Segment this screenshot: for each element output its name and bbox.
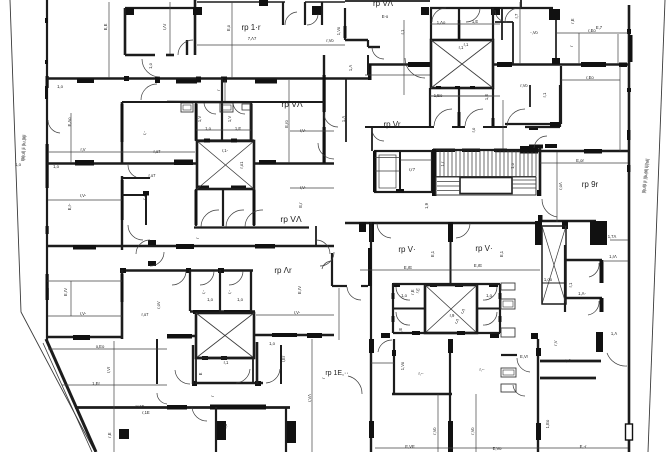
- door arc kitchen tr: [495, 10, 507, 22]
- svg-text:1,o: 1,o: [401, 293, 407, 298]
- door arc lobby big: [405, 58, 425, 78]
- bottom verticals t5: [449, 339, 451, 452]
- V1 black: [121, 104, 124, 142]
- door arc top b: [307, 14, 318, 25]
- apartment north wall: [122, 101, 324, 103]
- V E blacks: [323, 75, 326, 112]
- wall W4 baths top: [122, 269, 253, 272]
- door arc bath Dd: [483, 312, 497, 325]
- svg-text:1,Er: 1,Er: [92, 381, 100, 386]
- elevator divider: [399, 151, 401, 192]
- svg-text:1,Λ: 1,Λ: [348, 65, 353, 71]
- svg-text:r,V-: r,V-: [80, 193, 87, 198]
- top wall block: [259, 0, 268, 6]
- svg-text:1,E: 1,E: [398, 328, 403, 334]
- baths below core B bottom wall: [194, 226, 309, 228]
- svg-text:rp Λr: rp Λr: [274, 266, 292, 275]
- svg-text:rp VΛ: rp VΛ: [373, 0, 394, 8]
- door arc bcb 2: [226, 210, 244, 227]
- outer wall right blocks: [627, 29, 631, 34]
- svg-text:E,Λo: E,Λo: [67, 117, 72, 127]
- baths bca black slab: [550, 122, 560, 127]
- baths D left wall: [392, 284, 394, 333]
- W1 black slab c: [255, 80, 277, 84]
- door arc bath A3: [505, 8, 519, 22]
- fixture wc: [242, 104, 250, 110]
- top stub c: [304, 2, 306, 25]
- wall W11 a: [540, 360, 601, 363]
- svg-text:o,Eo: o,Eo: [96, 344, 105, 349]
- door arc bath Dc: [483, 287, 497, 300]
- dim line bca: [430, 95, 493, 97]
- W8 black a: [167, 405, 187, 410]
- shaft E diag 2: [542, 226, 566, 304]
- wall V1 mid: [121, 176, 123, 250]
- W2R black slab b: [584, 149, 602, 154]
- svg-text:1,o: 1,o: [57, 84, 63, 89]
- main wall W2 right: [495, 150, 630, 153]
- svg-text:E,Vr: E,Vr: [520, 354, 529, 359]
- W2R stub: [529, 145, 543, 149]
- door arc room70 b: [456, 223, 470, 238]
- baths D jambs: [392, 293, 395, 299]
- svg-text:rp VΛ: rp VΛ: [281, 99, 303, 109]
- svg-text:1,o: 1,o: [237, 297, 243, 302]
- stair west wall black: [432, 149, 437, 196]
- top wall segment f: [345, 0, 430, 2]
- bath wall right2: [501, 8, 503, 40]
- svg-text:E,1: E,1: [430, 250, 435, 257]
- W6 black c: [272, 333, 297, 337]
- svg-text:1,o: 1,o: [148, 62, 153, 68]
- lobby wall a: [331, 253, 333, 286]
- baths below core B part b: [222, 189, 224, 226]
- kitchen wall a: [495, 21, 513, 23]
- core D diag 1: [425, 285, 477, 333]
- core C diag 1: [196, 313, 254, 358]
- bottom center stub d: [596, 332, 603, 352]
- svg-text:1,o: 1,o: [207, 297, 213, 302]
- wall north-apartment E: [323, 55, 325, 163]
- W1R black slab b: [497, 62, 512, 67]
- bath divider black: [458, 20, 461, 40]
- svg-text:r,o1: r,o1: [239, 161, 244, 169]
- column black square: [119, 429, 129, 439]
- core B bottom jamb blocks: [197, 186, 209, 191]
- outer wall left: [46, 0, 48, 341]
- door arc room70 a: [377, 223, 391, 238]
- svg-text:1,V: 1,V: [197, 116, 202, 122]
- W6 black d: [307, 333, 322, 338]
- baths D right wall: [499, 284, 501, 333]
- wall W11 b: [540, 377, 596, 380]
- stair lower border: [436, 177, 536, 195]
- door arc bcb 3: [245, 210, 263, 227]
- svg-text:1,7Λ: 1,7Λ: [608, 234, 617, 239]
- svg-text:r,V-: r,V-: [300, 128, 307, 133]
- top-left room wall E: [194, 0, 197, 55]
- W1 jog: [368, 64, 372, 80]
- baths below core B part a black: [195, 190, 198, 225]
- svg-text:r,1: r,1: [464, 42, 469, 47]
- stair top wall blacks: [433, 149, 455, 153]
- kitchen wall c: [555, 20, 557, 58]
- dim v mid: [502, 100, 504, 150]
- top-right bathrooms wall N: [430, 7, 553, 9]
- wall W6 c: [255, 334, 334, 337]
- svg-text:r,o7: r,o7: [149, 173, 157, 178]
- svg-text:E,rE: E,rE: [474, 263, 482, 268]
- svg-text:E,ro: E,ro: [284, 119, 289, 127]
- W3R corner: [359, 222, 366, 232]
- door arc corridor c2: [150, 252, 164, 266]
- wall V2 baths: [195, 103, 198, 141]
- door arc kitchen bl2: [513, 385, 525, 396]
- svg-text:1,Eo: 1,Eo: [545, 419, 550, 428]
- elevator sill: [396, 189, 404, 193]
- door arc corridor c4: [320, 252, 334, 266]
- baths D top wall: [393, 283, 500, 285]
- W2 black slab b: [174, 160, 193, 166]
- W1 black slab b: [176, 80, 197, 84]
- W1R black slab a: [408, 62, 431, 67]
- W2R black slab a: [520, 149, 538, 154]
- W1R black slab c: [581, 62, 606, 67]
- door arc lobby top: [372, 47, 384, 59]
- svg-text:r,--: r,--: [418, 371, 424, 376]
- svg-text:rp 1·r: rp 1·r: [241, 23, 260, 32]
- W2R stub 2: [545, 144, 557, 148]
- top-left room wall S b: [166, 54, 174, 57]
- top-left room door stub: [186, 40, 188, 55]
- corridor wall E: [345, 79, 347, 142]
- main wall W2 left a: [47, 162, 197, 165]
- svg-text:-,Vo: -,Vo: [530, 30, 538, 35]
- baths bca c black: [492, 118, 495, 127]
- baths bca bottom wall: [365, 126, 434, 128]
- bl wall v: [156, 339, 158, 384]
- stair hall wall: [539, 148, 542, 196]
- svg-text:7,Λ7: 7,Λ7: [248, 36, 257, 41]
- svg-text:r,V-: r,V-: [300, 185, 307, 190]
- door arc w2 left: [128, 165, 141, 178]
- column bl2: [287, 421, 296, 443]
- corridor door jamb b: [148, 261, 156, 266]
- wall V1 upper: [121, 102, 124, 163]
- svg-text:E,rV: E,rV: [63, 288, 68, 296]
- door arc bl2: [348, 376, 362, 394]
- wall V1 lower: [121, 270, 124, 339]
- svg-text:r,oV: r,oV: [156, 301, 161, 309]
- svg-text:1,E: 1,E: [235, 126, 241, 131]
- svg-text:1,9: 1,9: [424, 202, 429, 208]
- door arc entrance right: [534, 136, 547, 148]
- kitchen bl wall: [501, 354, 517, 356]
- door arc bath Da: [396, 287, 410, 300]
- core B diag 2: [197, 141, 254, 189]
- right rooms bar a: [600, 260, 604, 283]
- stair hall black: [537, 190, 541, 196]
- wall top-right int a: [344, 8, 346, 40]
- svg-text:E,1: E,1: [499, 250, 504, 257]
- bottom center stub b: [490, 333, 499, 338]
- top-left room wall W: [124, 8, 127, 55]
- svg-text:r,E: r,E: [107, 432, 112, 437]
- bath wall left: [430, 8, 432, 40]
- right rooms wall a: [565, 259, 602, 261]
- svg-text:1,o: 1,o: [205, 126, 211, 131]
- stair top wall black 2: [520, 146, 538, 152]
- wall W9: [392, 393, 452, 396]
- svg-text:r,-1: r,-1: [565, 358, 572, 363]
- svg-text:r,V-: r,V-: [80, 311, 87, 316]
- bottom verticals t2: [285, 407, 287, 452]
- int a black: [344, 26, 347, 38]
- door arc closet: [128, 225, 143, 240]
- svg-text:r,Vo: r,Vo: [520, 83, 528, 88]
- svg-text:1,Eo: 1,Eo: [434, 93, 443, 98]
- elevator inner rect: [379, 155, 396, 188]
- bath divider top: [458, 8, 460, 40]
- main wall W3 right: [345, 222, 540, 225]
- svg-text:E,or: E,or: [576, 158, 584, 163]
- outer wall diagonal: [46, 339, 96, 452]
- wall top-right int c: [367, 40, 369, 47]
- bottom verticals t4: [393, 339, 395, 394]
- svg-text:rp Vr: rp Vr: [383, 120, 400, 129]
- svg-text:rp V·: rp V·: [398, 245, 415, 254]
- W3 black slab b: [176, 244, 194, 249]
- svg-text:1,Λo: 1,Λo: [437, 20, 446, 25]
- shaft E diag 1: [542, 226, 566, 304]
- lobby-elevator wall: [371, 127, 373, 151]
- bl wall v4: [192, 345, 194, 384]
- bl wall v2: [280, 345, 282, 384]
- bath partitions below W4 c: [250, 270, 252, 311]
- door arc bath b1: [204, 102, 216, 114]
- wall V2b: [221, 78, 223, 141]
- svg-text:E-o: E-o: [382, 14, 389, 19]
- outer wall right: [628, 5, 631, 452]
- right room top wall: [505, 123, 561, 125]
- stair landing lines: [437, 180, 536, 191]
- door arc corridor c1: [136, 240, 150, 254]
- svg-text:rp 9r: rp 9r: [582, 180, 599, 189]
- svg-text:r,o: r,o: [471, 127, 476, 132]
- lobby entry arc: [347, 287, 361, 300]
- bath partitions below W4 b: [219, 270, 221, 311]
- main wall W2 left b: [254, 162, 334, 165]
- door arc hall tl: [142, 59, 160, 77]
- door arc corridor e2: [318, 143, 334, 159]
- dim lobby v: [338, 288, 340, 340]
- core A diag 1: [431, 40, 493, 88]
- svg-text:r,-: r,-: [142, 131, 147, 135]
- plot boundary left: [10, 0, 95, 452]
- elevator core B box: [197, 141, 254, 189]
- svg-text:r,1: r,1: [224, 360, 229, 365]
- baths below core A wall c: [492, 88, 494, 127]
- door arc bath w4b: [200, 271, 214, 285]
- dim v right: [617, 34, 619, 64]
- room below core C: [196, 358, 253, 383]
- svg-text:r,V: r,V: [553, 340, 558, 345]
- svg-text:V,1E: V,1E: [136, 404, 145, 409]
- top-left room wall N: [125, 7, 196, 9]
- stair void rect: [460, 178, 512, 194]
- svg-text:E,o: E,o: [226, 24, 231, 31]
- wall W7: [193, 382, 263, 385]
- plot boundary right: [648, 0, 665, 452]
- svg-text:r,o: r,o: [223, 423, 228, 428]
- bath mid wall: [196, 139, 254, 141]
- bath top jambs: [392, 283, 400, 287]
- bath wall right: [492, 8, 494, 40]
- svg-text:r,-: r,-: [227, 290, 232, 294]
- W3 black slab c: [255, 244, 275, 249]
- W3R black bar b: [448, 222, 453, 242]
- door arc kitchen bl: [517, 358, 530, 372]
- main wall W1 left: [47, 77, 370, 80]
- door arc bca 1: [434, 109, 452, 126]
- closet black: [143, 191, 149, 196]
- svg-text:r,--: r,--: [479, 367, 485, 372]
- stair treads upper: [440, 151, 536, 176]
- t5 blacks: [448, 339, 453, 353]
- svg-text:E,r: E,r: [298, 202, 303, 208]
- elevator shelf 1: [375, 157, 400, 159]
- top-right block h: [491, 7, 500, 15]
- svg-text:r,o7: r,o7: [154, 149, 162, 154]
- svg-text:1,Λ-: 1,Λ-: [578, 291, 586, 296]
- door arc left wall: [48, 120, 60, 133]
- door arc top a: [285, 12, 297, 25]
- elevator left black: [373, 151, 377, 192]
- baths bca b black: [458, 112, 461, 127]
- fixture sink b: [220, 103, 233, 112]
- baths below core A wall d: [529, 85, 531, 107]
- svg-text:r,Vo: r,Vo: [432, 427, 437, 435]
- door arc bath A1: [432, 8, 446, 22]
- W4 jambs: [120, 268, 126, 273]
- top-right kitchen corner block: [549, 9, 560, 20]
- stair mid landing: [436, 176, 536, 178]
- door arc right room a: [589, 263, 599, 277]
- door arc stair hall: [542, 199, 557, 217]
- W2 black slab a: [75, 160, 94, 166]
- W8 black b: [210, 405, 266, 410]
- svg-text:r,Λr: r,Λr: [162, 23, 167, 30]
- door arc bath A2: [466, 8, 480, 22]
- W1R black slab d: [619, 63, 627, 68]
- door arc bath Db: [396, 312, 410, 325]
- black bar shaft left: [535, 221, 542, 245]
- svg-text:1,o: 1,o: [510, 162, 515, 168]
- bottom center stub c: [531, 333, 538, 339]
- baths below core A wall e: [559, 85, 561, 127]
- elevator core D box: [425, 285, 477, 333]
- closet wall v: [145, 195, 147, 225]
- shaft E box: [542, 226, 566, 304]
- lobby east wall: [370, 222, 372, 339]
- V1 mid black: [121, 180, 124, 220]
- W6 black b: [167, 334, 192, 339]
- door arc right bottom: [607, 353, 627, 366]
- svg-text:1,E: 1,E: [472, 19, 478, 24]
- svg-text:r,1: r,1: [568, 282, 573, 287]
- corridor door jamb a: [148, 240, 156, 245]
- svg-text:r,Er: r,Er: [281, 355, 286, 362]
- big black slab right: [590, 221, 607, 245]
- baths below core A wall a: [429, 88, 431, 127]
- W2 black slab c: [259, 160, 276, 165]
- lobby wall c: [361, 285, 368, 287]
- thin line lobby: [365, 74, 430, 76]
- lobby east wall black: [368, 248, 372, 286]
- baths below core B part a: [195, 189, 197, 226]
- wall W8: [75, 406, 290, 409]
- bottom verticals t3: [370, 339, 372, 452]
- core D diag 2: [425, 285, 477, 333]
- W3R black bar a: [369, 222, 374, 242]
- svg-text:E,E: E,E: [103, 23, 108, 30]
- svg-text:r,1E: r,1E: [142, 410, 150, 415]
- svg-text:r,1: r,1: [400, 29, 405, 34]
- baths below core B part c: [253, 189, 255, 226]
- svg-text:1,rΛ: 1,rΛ: [609, 254, 617, 259]
- svg-text:r,7: r,7: [514, 13, 519, 18]
- right wall v1: [560, 66, 562, 124]
- door arc room tl: [141, 84, 157, 100]
- window right wall: [626, 424, 633, 440]
- stair core A box: [431, 40, 493, 88]
- wall W6 a: [47, 336, 122, 339]
- stair hall jamb2: [538, 215, 543, 222]
- svg-text:1,o: 1,o: [486, 293, 492, 298]
- door arc lobby left: [372, 129, 384, 141]
- top-right kitchen wall: [520, 0, 522, 9]
- svg-text:1,Λ: 1,Λ: [611, 331, 617, 336]
- elevator core C box: [196, 313, 254, 358]
- door arc corridor c3: [316, 240, 330, 254]
- svg-text:E: E: [198, 372, 203, 375]
- core C diag 2: [196, 313, 254, 358]
- kitchen counters right2: [501, 368, 516, 377]
- W5 black b: [224, 310, 250, 314]
- top block e: [312, 6, 321, 15]
- V2 black bars: [195, 104, 198, 140]
- closet wall h: [122, 194, 146, 196]
- top wall stub: [282, 2, 284, 25]
- baths D divider L: [393, 308, 425, 310]
- svg-text:r,Vo: r,Vo: [470, 427, 475, 435]
- svg-text:1,Vo: 1,Vo: [400, 361, 405, 370]
- lobby corridor arc: [322, 261, 332, 269]
- svg-text:E,7: E,7: [596, 25, 603, 30]
- kitchen wall b: [512, 22, 514, 64]
- shaft E inner box: [542, 283, 566, 304]
- door arc bcb 1: [201, 210, 219, 227]
- dim line room103E: [169, 2, 171, 54]
- elevator shelf 3: [400, 159, 432, 161]
- svg-text:rp 1E,··: rp 1E,··: [325, 370, 348, 377]
- svg-text:E,rV: E,rV: [297, 286, 302, 294]
- wall top-right int d: [367, 55, 369, 75]
- svg-text:r,V: r,V: [80, 147, 85, 152]
- short wall w16: [122, 177, 150, 179]
- door arc top-left room: [178, 40, 193, 55]
- wall between rooms 70: [450, 242, 452, 284]
